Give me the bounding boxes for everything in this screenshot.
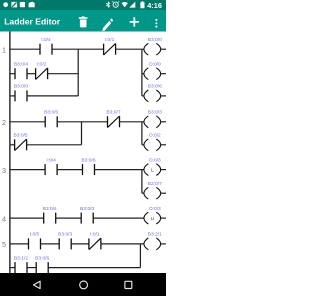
wire coil B3:2/1 to right rail	[161, 243, 166, 245]
wire coil O:0/3 unlatch to right rail	[161, 217, 166, 219]
coil O:0/3 unlatch	[144, 206, 161, 224]
wire coil B3:0/6 to right rail	[161, 95, 166, 97]
nav recents button	[125, 281, 132, 288]
svg-text:U: U	[151, 216, 155, 222]
wire rung2 rail to contact B3:0/0	[10, 121, 45, 123]
wire coil O:0/0 to right rail	[161, 73, 166, 75]
svg-text:5: 5	[2, 240, 6, 249]
svg-text:B3:0/5: B3:0/5	[14, 133, 28, 139]
contact I:0/4 (NO) rung3	[45, 157, 57, 175]
wire coil O:0/3 latch to right rail	[161, 169, 166, 171]
contact I:0/1 (NC) rung5	[89, 232, 101, 250]
junction rung5 branch join vertical	[139, 244, 141, 268]
coil B3:2/1	[144, 232, 162, 250]
wire rung5 contact I:0/5 to contact B3:0/3	[41, 243, 60, 245]
toolbar delete icon	[79, 16, 88, 27]
svg-text:2: 2	[2, 118, 6, 127]
contact B3:0/4 (NO) rung4	[43, 206, 57, 224]
wire rung2 contact B3:0/7 to output branch	[120, 121, 144, 123]
coil B3:0/6	[144, 84, 162, 102]
svg-text:B3:0/6: B3:0/6	[148, 84, 162, 90]
status bar	[0, 0, 166, 10]
svg-text:L: L	[151, 167, 154, 173]
contact B3:0/7 (NC)	[106, 110, 120, 128]
svg-text:3: 3	[2, 166, 6, 175]
nav home button	[80, 281, 88, 289]
contact I:0/5 (NO)	[29, 232, 41, 250]
app bar	[0, 10, 166, 31]
coil B3:0/0	[144, 37, 162, 55]
wire coil B3:0/0 to right rail	[161, 48, 166, 50]
svg-text:4:16: 4:16	[147, 1, 162, 10]
svg-text:B3:0/0: B3:0/0	[148, 37, 162, 43]
svg-text:B3:0/4: B3:0/4	[14, 62, 28, 68]
svg-text:B3:0/3: B3:0/3	[58, 232, 72, 238]
svg-text:O:0/3: O:0/3	[149, 157, 161, 163]
junction rung3 output branch vertical	[141, 170, 143, 194]
left power rail	[9, 31, 11, 273]
svg-text:I:0/5: I:0/5	[30, 232, 40, 238]
svg-text:B3:0/0: B3:0/0	[14, 84, 28, 90]
contact B3:0/3 (NO)	[58, 232, 72, 250]
svg-text:I:0/4: I:0/4	[46, 157, 56, 163]
wire rung1 branch3 to join vertical	[27, 95, 78, 97]
contact B3:1/2 (NO)	[14, 255, 28, 273]
status notification dot	[3, 2, 8, 7]
wire rung5 contact I:0/1 to coil B3:2/1	[101, 243, 144, 245]
wire rung2 branch to join vertical	[27, 144, 82, 146]
wire rung5 branch contact B3:1/2 to contact B3:0/6	[27, 267, 36, 269]
svg-text:B3:0/3: B3:0/3	[148, 110, 162, 116]
toolbar edit icon	[102, 18, 113, 31]
wire rung5 rail to contact I:0/5	[10, 243, 29, 245]
wire rung1 branch2 to join vertical	[48, 73, 79, 75]
svg-text:I:0/4: I:0/4	[41, 37, 51, 43]
svg-text:O:0/0: O:0/0	[149, 62, 161, 68]
contact I:0/2 (NC)	[36, 62, 48, 80]
contact I:0/4 (NO)	[40, 37, 52, 55]
svg-text:I:0/2: I:0/2	[37, 62, 47, 68]
toolbar overflow menu icon	[155, 19, 157, 28]
svg-text:B3:0/6: B3:0/6	[35, 255, 49, 261]
coil O:0/3 latch	[144, 157, 161, 175]
junction rung1 branch join vertical	[77, 49, 79, 96]
wire rung5 branch rail to contact B3:1/2	[10, 267, 15, 269]
wire rung3 contact B3:0/6 to output branch	[95, 169, 144, 171]
svg-text:B3:1/2: B3:1/2	[14, 255, 28, 261]
wire rung2 output branch to coil O:0/2	[142, 144, 144, 146]
svg-text:O:0/3: O:0/3	[149, 206, 161, 212]
coil O:0/2	[144, 133, 161, 151]
wire rung2 contact B3:0/0 to contact B3:0/7	[57, 121, 107, 123]
wire rung3 contact I:0/4 to contact B3:0/6	[57, 169, 82, 171]
wire coil B2:0/7 to right rail	[161, 192, 166, 194]
wire rung1 rail to contact I:0/4	[10, 48, 40, 50]
contact I:0/1 (NC)	[104, 37, 116, 55]
svg-text:I:0/1: I:0/1	[105, 37, 115, 43]
svg-text:I:0/1: I:0/1	[90, 232, 100, 238]
svg-text:1: 1	[2, 46, 6, 55]
wire rung1 contact I:0/4 to contact I:0/1	[52, 48, 104, 50]
nav back button	[34, 281, 41, 288]
junction rung2 branch join vertical	[81, 122, 83, 145]
navigation bar	[0, 273, 166, 296]
wire rung1 branch2 rail to contact B3:0/4	[10, 73, 15, 75]
wire rung1 branch2 contact B3:0/4 to contact I:0/2	[27, 73, 36, 75]
wire rung4 contact B3:0/4 to contact B3:0/0	[56, 217, 81, 219]
contact B3:0/5 (NC)	[14, 133, 28, 151]
wire rung5 branch to join vertical	[48, 267, 140, 269]
wire coil B3:0/3 to right rail	[161, 121, 166, 123]
coil O:0/0	[144, 62, 161, 80]
coil B3:0/3	[144, 110, 162, 128]
wire rung1 contact I:0/1 to output branch	[116, 48, 144, 50]
svg-text:Ladder Editor: Ladder Editor	[4, 17, 61, 27]
svg-text:4: 4	[2, 214, 6, 223]
svg-text:B3:0/7: B3:0/7	[106, 110, 120, 116]
svg-text:B3:0/0: B3:0/0	[80, 206, 94, 212]
svg-text:B2:0/7: B2:0/7	[148, 181, 162, 187]
contact B3:0/0 (NO) rung2	[44, 110, 58, 128]
contact B3:0/6 (NO)	[81, 157, 95, 175]
wire rung5 contact B3:0/3 to contact I:0/1	[71, 243, 89, 245]
coil B2:0/7	[144, 181, 162, 199]
svg-text:O:0/2: O:0/2	[149, 133, 161, 139]
wire rung2 branch rail to contact B3:0/5	[10, 144, 15, 146]
wire rung1 branch3 rail to contact B3:0/0	[10, 95, 15, 97]
wire rung3 output branch to coil B2:0/7	[142, 192, 144, 194]
status wifi icon	[122, 2, 128, 7]
status screenshot icon	[11, 2, 17, 8]
wire rung1 output branch to coil B3:0/6	[142, 95, 144, 97]
wire rung4 rail to contact B3:0/4	[10, 217, 44, 219]
contact B3:0/4 (NO)	[14, 62, 28, 80]
wire rung3 rail to contact I:0/4	[10, 169, 45, 171]
svg-text:B3:0/6: B3:0/6	[81, 157, 95, 163]
svg-text:B3:0/0: B3:0/0	[44, 110, 58, 116]
svg-text:B3:0/4: B3:0/4	[43, 206, 57, 212]
svg-text:B3:2/1: B3:2/1	[148, 232, 162, 238]
wire rung4 contact B3:0/0 to coil O:0/3	[93, 217, 144, 219]
toolbar add icon	[130, 17, 139, 26]
status app icon	[20, 2, 25, 7]
contact B3:0/6 (NO) rung5 branch	[35, 255, 49, 273]
status battery icon	[140, 1, 144, 8]
wire coil O:0/2 to right rail	[161, 144, 166, 146]
wire rung1 output branch to coil O:0/0	[142, 73, 144, 75]
status signal icon	[129, 2, 135, 8]
junction rung2 output branch vertical	[141, 122, 143, 145]
contact B3:0/0 (NO) rung4	[80, 206, 94, 224]
status bluetooth icon	[106, 1, 110, 8]
contact B3:0/0 (NO)	[14, 84, 28, 102]
status alarm icon	[112, 1, 119, 7]
junction rung1 output branch vertical	[141, 49, 143, 96]
status camera icon	[29, 2, 35, 7]
